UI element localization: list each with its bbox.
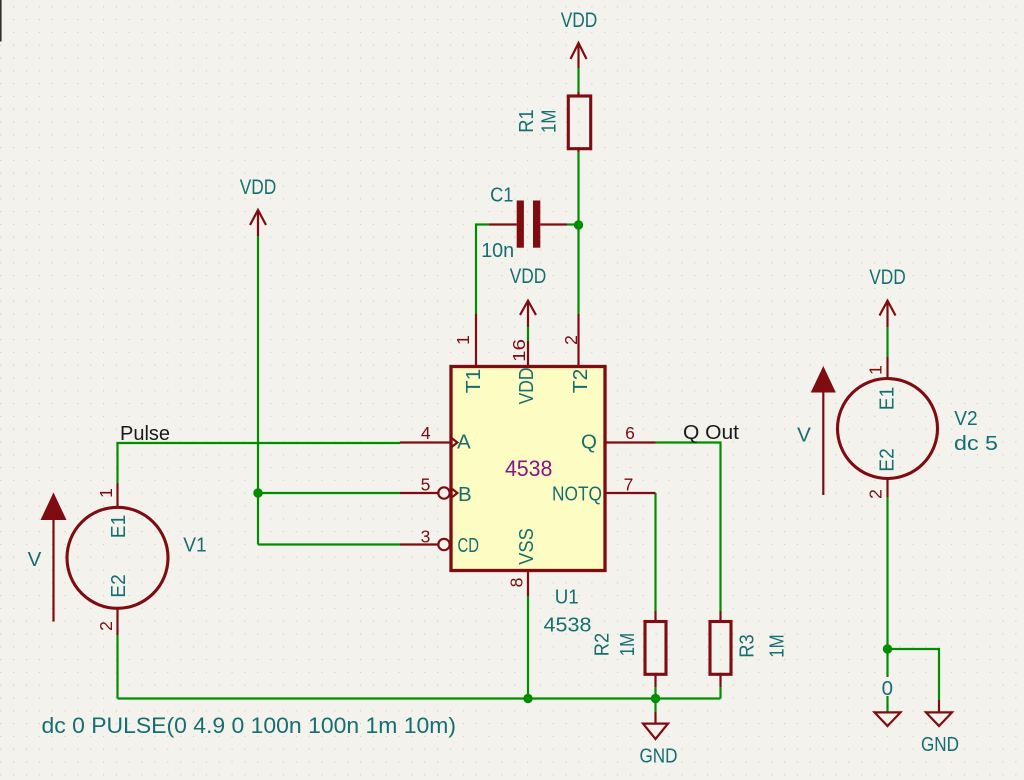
U1 pin 1 T1 [475,314,477,367]
junction VSS at bottom bus [523,694,532,703]
op IC U1 4538 body [451,367,605,571]
svg-text:1M: 1M [765,634,788,657]
V1 polarity arrow [41,493,67,521]
svg-text:R1: R1 [515,109,538,132]
V1 pin 1 stub [116,483,118,508]
ground GND3 [938,700,940,712]
wire C1 left to U1 pin T1 [476,225,489,315]
svg-text:A: A [457,431,471,454]
capacitor C1 pin stubs [489,223,517,225]
V2 polarity arrow [811,366,836,393]
svg-text:V: V [28,548,42,571]
resistor R3 pin stubs [719,611,721,622]
svg-text:VDD: VDD [561,8,598,32]
resistor R1 pin stubs [577,92,579,96]
svg-text:GND: GND [640,745,678,768]
svg-text:8: 8 [507,578,527,588]
junction R2 at bottom bus [651,694,660,703]
wire C1 right to junction [567,223,579,225]
svg-text:CD: CD [458,534,480,557]
power symbol VDD top [571,43,587,68]
U1 pin B invert bubble [438,487,449,498]
svg-text:dc 0 PULSE(0 4.9 0 100n 100n 1: dc 0 PULSE(0 4.9 0 100n 100n 1m 10m) [42,713,457,738]
U1 pin A input arrow [451,438,457,448]
U1 pin 16 VDD [527,341,529,367]
svg-text:1M: 1M [537,110,560,133]
svg-text:Q Out: Q Out [683,421,739,444]
resistor R2 body [645,622,666,675]
U1 pin 5 B [400,492,438,494]
U1 pin 8 VSS [527,571,529,597]
svg-text:B: B [458,483,472,506]
net label 0 [882,677,893,696]
wire rail to U1 pin CD [258,543,400,545]
svg-text:NOTQ: NOTQ [552,483,602,506]
wire bottom bus [118,697,721,699]
svg-text:E2: E2 [107,574,130,597]
junction V2 bottom [883,644,892,653]
voltage source V1 circle [67,507,168,608]
svg-text:4538: 4538 [544,614,592,637]
svg-text:4538: 4538 [505,456,553,481]
wire V1 pin2 down to bottom bus [116,635,118,699]
U1 pin 4 A [400,441,451,443]
U1 pin 3 CD [400,543,438,545]
svg-text:E1: E1 [875,387,898,410]
svg-text:R2: R2 [591,633,614,656]
svg-text:1: 1 [96,488,116,498]
resistor R2 pin stubs [654,611,656,622]
wire VDD vertical rail x=258 [257,236,259,545]
voltage source V2 circle [838,379,938,479]
svg-text:VDD: VDD [869,265,906,289]
capacitor C1 plates [517,201,524,248]
U1 pin CD invert bubble [438,539,449,550]
svg-text:C1: C1 [490,184,513,207]
svg-text:V2: V2 [954,407,977,430]
svg-text:V1: V1 [183,534,206,557]
svg-text:2: 2 [96,621,116,631]
svg-text:R3: R3 [735,634,758,657]
svg-text:V: V [797,424,811,447]
svg-text:GND: GND [921,733,959,756]
svg-text:1: 1 [453,335,473,345]
svg-text:6: 6 [625,423,635,443]
resistor R1 body [568,96,590,149]
svg-text:5: 5 [421,475,431,495]
power symbol VDD left rail [250,210,266,236]
svg-text:U1: U1 [555,586,579,609]
sheet frame edge top-left [0,0,2,42]
wire Pulse: V1 pin1 up and across to U1 pin A [118,443,401,483]
svg-text:T2: T2 [569,369,592,394]
U1 pin 2 T2 [577,314,579,367]
V2 pin 2 stub [886,479,888,498]
wire R3 bottom to bus [719,687,721,699]
U1 pin 6 Q [605,441,656,443]
svg-text:Pulse: Pulse [120,422,170,445]
svg-text:VDD: VDD [515,368,538,405]
junction at VDD rail / pin B wire [253,488,262,497]
wire R1 bottom to U1 pin T2, junction with C1 [577,152,579,314]
wire NOTQ down to R2 [654,493,656,611]
resistor R3 body [710,622,731,675]
wire R2 bottom to bus [654,687,656,699]
ground GND1 below R2 [654,712,656,724]
wire junction right and down to GND3 [888,649,940,700]
svg-text:VDD: VDD [240,175,277,199]
wire U1 VSS pin8 down to bus [527,596,529,699]
wire bus junction down to GND1 [654,699,656,713]
svg-text:10n: 10n [481,239,514,262]
svg-text:Q: Q [581,431,597,454]
wire junction down to GND2 net 0 [886,649,888,712]
wire rail to U1 pin B [258,492,400,494]
U1 pin 7 NOTQ [605,492,656,494]
svg-text:16: 16 [509,339,529,362]
V2 pin 1 stub [886,357,888,379]
svg-text:VDD: VDD [510,264,547,288]
svg-text:2: 2 [561,335,581,345]
U1 pin B input arrow [451,488,457,498]
wire Q Out to R3 top [656,443,721,612]
power symbol VDD mid (U1 pin16) [520,301,536,327]
wire V2 pin2 down to junction [886,497,888,649]
svg-text:0: 0 [882,677,893,700]
wire VDD right to V2 pin1 [886,327,888,357]
power symbol VDD right (V2) [880,301,896,327]
V1 pin 2 stub [116,608,118,635]
junction at C1/R1/T2 [574,220,583,229]
svg-text:1M: 1M [616,633,639,656]
svg-text:4: 4 [421,423,431,443]
wire VDD top to R1 [577,68,579,92]
svg-text:VSS: VSS [515,528,538,565]
svg-text:1: 1 [865,365,885,375]
svg-text:E1: E1 [107,515,130,538]
wire VDD mid to U1 pin16 [527,327,529,341]
svg-text:T1: T1 [462,369,485,394]
svg-text:2: 2 [865,489,885,499]
svg-text:E2: E2 [875,448,898,471]
svg-text:dc 5: dc 5 [954,432,998,455]
ground GND2 net 0 below V2 [875,712,901,726]
svg-text:3: 3 [421,527,431,547]
svg-text:7: 7 [624,475,634,495]
